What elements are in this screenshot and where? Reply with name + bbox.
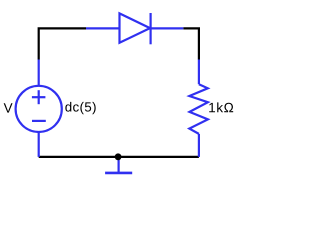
voltage source V1 minus sign xyxy=(32,120,46,122)
label dc(5) xyxy=(65,102,95,114)
diode D1 triangle xyxy=(120,13,151,42)
voltage source V1 bottom lead xyxy=(38,131,40,157)
label V xyxy=(4,103,13,112)
voltage source V1 top lead xyxy=(38,60,40,87)
diode D1 cathode lead xyxy=(151,27,184,29)
label 1kOhm xyxy=(209,102,233,112)
wire bottom black xyxy=(39,156,199,158)
resistor R1 zigzag xyxy=(189,84,208,134)
voltage source V1 plus sign xyxy=(32,90,46,104)
voltage source V1 circle xyxy=(16,86,62,132)
wire top-left black L (top wire left part + left rail upper) xyxy=(39,28,86,59)
junction dot xyxy=(115,153,122,160)
diode D1 cathode bar xyxy=(150,13,152,44)
ground bar xyxy=(105,172,132,175)
wire top-right black L (top wire right part + right rail upper) xyxy=(183,28,199,59)
resistor R1 bottom lead xyxy=(198,134,200,157)
diode D1 anode lead xyxy=(86,27,120,29)
ground stem xyxy=(117,158,119,173)
resistor R1 top lead xyxy=(198,60,200,85)
